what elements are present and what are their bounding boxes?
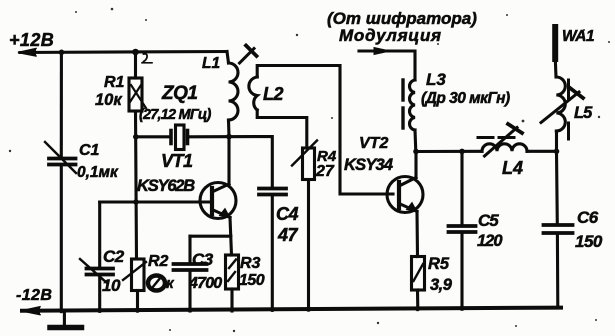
- svg-text:150: 150: [239, 272, 265, 289]
- tuning slug arrow of L4: [485, 124, 523, 156]
- wire L1 top from rail: [227, 52, 229, 64]
- svg-text:27: 27: [315, 163, 335, 180]
- capacitor C1 (trimmer): [45, 142, 76, 173]
- power -12V arrowhead: [21, 307, 40, 315]
- wire VT1 collector: [227, 137, 230, 184]
- tuning slug arrow of L5: [541, 88, 583, 123]
- wire C2 branch down: [98, 202, 101, 268]
- svg-text:L5: L5: [574, 104, 593, 122]
- wire R4 bottom: [307, 180, 310, 311]
- resistor R3: [226, 255, 239, 289]
- wire R3 bottom: [230, 289, 233, 311]
- node crystal/R1 junction: [133, 134, 139, 140]
- svg-text:C5: C5: [478, 211, 499, 230]
- svg-text:C6: C6: [577, 208, 599, 227]
- tuning slug arrow of L1: [240, 46, 257, 64]
- svg-text:L1: L1: [202, 55, 220, 72]
- transistor VT1: [200, 183, 236, 219]
- wire C2 bottom: [98, 276, 101, 312]
- capacitor C4: [259, 189, 286, 195]
- node rail R5: [415, 306, 420, 311]
- node rail R4: [306, 307, 311, 312]
- inductor L5 (adjustable): [556, 77, 565, 131]
- node B top-rail / R1 junction: [132, 49, 139, 56]
- svg-text:-12В: -12В: [16, 287, 52, 304]
- svg-text:+12В: +12В: [9, 30, 54, 50]
- wire L2 top to VT2 base: [257, 66, 393, 195]
- modulation input arrowhead: [374, 48, 390, 55]
- svg-text:KSY34: KSY34: [344, 156, 393, 174]
- wire C1 lower segment: [60, 166, 63, 311]
- antenna WA1: [552, 27, 558, 59]
- capacitor C2 (trimmer): [80, 259, 113, 283]
- label value oval of R2: [148, 276, 165, 291]
- wire C6 bottom: [556, 234, 559, 308]
- wire R1 top segment: [134, 52, 137, 78]
- svg-text:3,9: 3,9: [430, 276, 453, 294]
- wire VT1 base: [100, 200, 212, 203]
- crystal ZQ1: [171, 125, 188, 150]
- wire L4 to L5/C6 node: [527, 150, 557, 153]
- node rail C3: [187, 307, 192, 312]
- node rail C4: [270, 307, 275, 312]
- transistor VT2: [387, 177, 423, 213]
- node rail C5: [459, 306, 464, 311]
- svg-text:R2: R2: [148, 253, 169, 270]
- inductor L3 choke: [409, 80, 415, 130]
- wire C5 top: [460, 151, 463, 224]
- wire emitter to C3: [190, 235, 231, 238]
- inductor L4 (horizontal, adjustable): [482, 144, 527, 152]
- svg-text:L4: L4: [502, 158, 523, 178]
- node L5/C6 junction: [554, 149, 560, 155]
- node rail R3: [229, 307, 234, 312]
- wire top +12V rail: [20, 52, 227, 53]
- svg-text:10: 10: [102, 276, 121, 295]
- wire L2 bottom to R4: [257, 110, 307, 148]
- ground symbol: [50, 311, 82, 328]
- svg-text:C2: C2: [103, 247, 125, 266]
- svg-text:L3: L3: [426, 70, 446, 89]
- resistor R4 (trimmer): [292, 141, 317, 180]
- svg-text:VT2: VT2: [359, 135, 388, 152]
- svg-text:47: 47: [277, 225, 299, 245]
- node rail R2: [135, 308, 140, 313]
- core dashes of L4: [478, 136, 514, 139]
- wire VT2 collector: [414, 152, 417, 178]
- wire crystal right lead to C4 branch: [189, 137, 272, 188]
- resistor R2 (trimmer): [123, 259, 146, 291]
- wire antenna lead: [554, 59, 558, 77]
- svg-text:ZQ1: ZQ1: [161, 83, 197, 104]
- wire C3 bottom: [188, 271, 191, 311]
- wire VT1 emitter down: [230, 218, 232, 256]
- inductor L2: [249, 77, 257, 110]
- svg-text:(Др 30 мкГн): (Др 30 мкГн): [421, 90, 510, 107]
- svg-text:R3: R3: [240, 255, 261, 272]
- svg-text:0,1мк: 0,1мк: [77, 164, 119, 181]
- wire C6 top: [555, 151, 559, 224]
- wire VT2 emitter to R5: [415, 212, 419, 257]
- wire C5 bottom: [460, 233, 463, 309]
- wire L5 bottom: [555, 131, 558, 151]
- capacitor C3: [174, 264, 207, 270]
- svg-text:KSY62B: KSY62B: [137, 177, 195, 195]
- node rail C1: [59, 308, 64, 313]
- svg-text:(27,12 МГц): (27,12 МГц): [139, 107, 211, 123]
- wire L1 bottom to collector node: [227, 120, 231, 137]
- svg-text:R5: R5: [428, 255, 450, 273]
- core dashes of L5: [567, 80, 570, 139]
- capacitor C5: [449, 226, 476, 232]
- svg-text:C1: C1: [79, 142, 100, 159]
- svg-text:VT1: VT1: [161, 151, 193, 171]
- node C5 junction: [459, 149, 465, 155]
- svg-text:R1: R1: [104, 74, 125, 91]
- wire L3 bottom to collector node: [413, 130, 417, 152]
- node A top-rail / C1 junction: [59, 50, 65, 56]
- resistor R1: [129, 78, 146, 111]
- inductor L1: [229, 63, 239, 120]
- resistor R5: [412, 257, 425, 291]
- svg-text:150: 150: [575, 232, 603, 251]
- svg-text:120: 120: [477, 232, 503, 250]
- node collector/L1/crystal junction: [226, 134, 232, 140]
- wire crystal left lead: [136, 135, 170, 138]
- capacitor C6: [544, 225, 573, 233]
- svg-text:C4: C4: [276, 204, 298, 224]
- svg-text:Модуляция: Модуляция: [339, 26, 442, 45]
- wire bottom -12V rail: [22, 308, 561, 311]
- wire R1 bottom to R2 top (bias line): [136, 111, 137, 259]
- power +12V arrowhead: [18, 49, 36, 57]
- svg-text:WA1: WA1: [562, 28, 594, 45]
- wire collector node to L4: [416, 150, 482, 153]
- node collector/choke junction: [413, 149, 419, 155]
- wire C3 top: [188, 236, 191, 262]
- wire C1 upper segment: [60, 52, 63, 157]
- svg-text:4700: 4700: [188, 275, 222, 292]
- svg-text:к: к: [166, 275, 175, 292]
- wire modulation input: [359, 51, 415, 80]
- wire R5 bottom: [416, 290, 419, 309]
- scan mark near R1 junction: [144, 54, 148, 62]
- svg-text:10к: 10к: [95, 91, 123, 109]
- node base/bias junction: [133, 199, 139, 205]
- core dashes of L3: [401, 80, 404, 128]
- node rail C2: [97, 308, 102, 313]
- wire C4 bottom: [271, 196, 274, 311]
- svg-text:C3: C3: [192, 250, 214, 269]
- svg-text:L2: L2: [263, 84, 283, 104]
- wire R2 bottom: [136, 291, 139, 312]
